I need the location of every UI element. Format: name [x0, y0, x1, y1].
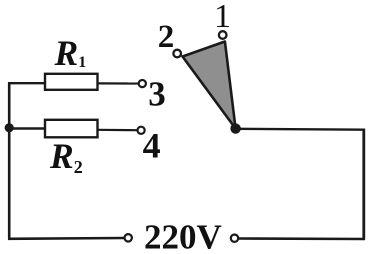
- wire: source terminal to bottom-right corner: [239, 237, 365, 240]
- svg-text:R2: R2: [49, 136, 83, 177]
- source terminal left: [125, 234, 132, 241]
- resistor R1: [45, 74, 98, 90]
- wire: switch pivot to right bus: [236, 128, 366, 131]
- node: switch pivot: [230, 123, 240, 133]
- resistor R2: [45, 120, 98, 138]
- svg-text:2: 2: [158, 19, 175, 55]
- wire: bottom-left to source terminal: [8, 237, 124, 240]
- wire: R2 to terminal 4: [98, 129, 138, 132]
- svg-text:220V: 220V: [144, 217, 222, 254]
- contact 1: [219, 31, 227, 39]
- svg-text:3: 3: [148, 75, 166, 114]
- svg-text:R1: R1: [54, 33, 87, 73]
- wire: top-left horizontal to R1: [8, 82, 45, 84]
- switch wedge SA: [183, 42, 236, 129]
- wire: left vertical bus: [8, 82, 11, 239]
- svg-text:1: 1: [214, 0, 231, 35]
- contact 2: [173, 50, 181, 58]
- svg-text:4: 4: [143, 125, 161, 165]
- wire: junction to R2: [9, 127, 45, 129]
- node: junction on left bus: [5, 123, 14, 132]
- wire: R1 to terminal 3: [98, 82, 139, 84]
- source terminal right: [231, 235, 238, 242]
- wire: right vertical bus: [362, 129, 365, 240]
- terminal 3: [139, 80, 146, 87]
- terminal 4: [138, 127, 145, 134]
